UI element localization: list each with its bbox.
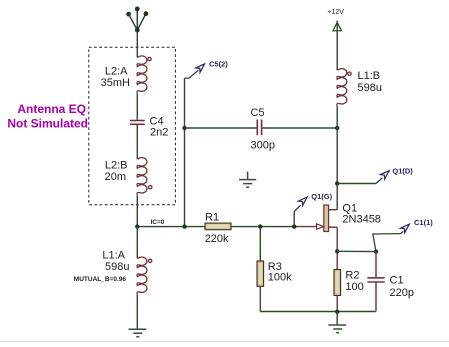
- probe Q1(D) wire: [337, 183, 376, 185]
- wire R1 to gate node: [231, 226, 294, 228]
- wire R3 branch: [259, 227, 261, 261]
- probe C5(2): [185, 64, 205, 78]
- svg-text:L2:B: L2:B: [105, 159, 128, 171]
- probe Q1(G): [294, 197, 307, 211]
- svg-text:Q1(D): Q1(D): [392, 167, 413, 176]
- bottom rail wire: [260, 311, 375, 313]
- svg-text:Q1: Q1: [342, 203, 357, 215]
- wire L2:A to C4: [136, 94, 138, 120]
- capacitor C4: [130, 121, 145, 125]
- svg-text:C1(1): C1(1): [414, 218, 433, 227]
- inductor L2:A: [137, 56, 151, 94]
- svg-text:Not Simulated: Not Simulated: [7, 116, 88, 130]
- faint footer line: [0, 341, 449, 343]
- ground left: [129, 329, 147, 337]
- wire C1 branch: [375, 252, 377, 277]
- wire to C5: [185, 127, 257, 129]
- capacitor C5: [257, 120, 261, 136]
- svg-text:35mH: 35mH: [101, 77, 130, 89]
- resistor R1: [205, 223, 231, 230]
- svg-text:2n2: 2n2: [150, 126, 168, 138]
- wire source node to C1: [337, 250, 376, 252]
- wire +12V to L1:B: [336, 21, 338, 71]
- junction dot C1 tap: [374, 249, 378, 253]
- wire source down: [336, 227, 338, 251]
- inductor L1:A: [137, 257, 152, 295]
- svg-text:L1:B: L1:B: [358, 70, 381, 82]
- svg-text:L1:A: L1:A: [102, 249, 125, 261]
- svg-text:Q1(G): Q1(G): [311, 192, 332, 201]
- ground bottom: [328, 325, 346, 333]
- inductor L1:B: [337, 69, 351, 107]
- probe Q1(D): [376, 171, 389, 184]
- main horizontal wire: [137, 226, 205, 228]
- svg-text:MUTUAL_B=0.96: MUTUAL_B=0.96: [74, 276, 127, 283]
- wire C1 to bottom rail: [375, 282, 377, 312]
- svg-text:C5: C5: [251, 107, 265, 119]
- svg-text:220p: 220p: [390, 287, 414, 299]
- svg-text:220k: 220k: [205, 233, 229, 245]
- ground floating mid: [239, 172, 256, 188]
- transistor Q1 JFET: [317, 205, 338, 232]
- junction dot bottom: [335, 310, 339, 314]
- wire to ground bottom: [336, 312, 338, 325]
- svg-text:598u: 598u: [105, 261, 129, 273]
- svg-text:100k: 100k: [268, 271, 292, 283]
- inductor L2:B: [137, 158, 152, 196]
- dashed enclosure box: [89, 47, 176, 205]
- wire R2 branch: [336, 251, 338, 269]
- svg-text:2N3458: 2N3458: [342, 214, 381, 226]
- capacitor C1: [367, 278, 384, 282]
- channel bar: [324, 205, 329, 232]
- drain stub: [329, 209, 338, 211]
- svg-text:Antenna EQ: Antenna EQ: [17, 102, 86, 116]
- probe C1(1) wire: [373, 234, 401, 252]
- wire L2:B to main node: [136, 195, 138, 226]
- junction dot source node: [335, 249, 339, 253]
- junction dot R3 tap: [258, 224, 262, 228]
- svg-text:100: 100: [345, 281, 363, 293]
- svg-text:20m: 20m: [105, 171, 126, 183]
- vertical probe wire: [184, 78, 186, 226]
- antenna: [126, 6, 148, 32]
- resistor R2: [334, 270, 341, 296]
- junction dot drain probe tap: [335, 181, 339, 185]
- node junction mid: [182, 224, 186, 228]
- svg-text:L2:A: L2:A: [105, 65, 128, 77]
- gate arrow: [317, 224, 324, 229]
- wire C4 to L2:B: [136, 124, 138, 159]
- wire L1:A to ground: [136, 295, 138, 330]
- wire R2 to bottom rail: [336, 296, 338, 312]
- wire C5 to right rail: [262, 127, 337, 129]
- wire R3 to bottom rail: [259, 286, 261, 311]
- wire L1:B down to drain: [336, 106, 338, 210]
- gate wire: [294, 226, 316, 228]
- svg-text:C5(2): C5(2): [209, 59, 228, 68]
- probe C1(1): [401, 224, 410, 233]
- wire node to L1:A: [136, 227, 138, 259]
- resistor R3: [257, 261, 264, 286]
- svg-text:C1: C1: [390, 274, 404, 286]
- junction dot right rail C5: [335, 126, 339, 130]
- wire antenna down: [136, 30, 138, 57]
- svg-text:+12V: +12V: [327, 9, 344, 16]
- svg-text:R2: R2: [345, 269, 359, 281]
- probe Q1(G) wire: [293, 211, 295, 226]
- junction dot C5 tap: [182, 126, 186, 130]
- node junction left: [135, 224, 139, 228]
- svg-text:300p: 300p: [251, 140, 275, 152]
- svg-text:R1: R1: [205, 211, 219, 223]
- source stub: [329, 226, 338, 228]
- junction dot gate probe tap: [292, 224, 296, 228]
- svg-text:598u: 598u: [358, 82, 382, 94]
- svg-text:IC=0: IC=0: [151, 219, 165, 226]
